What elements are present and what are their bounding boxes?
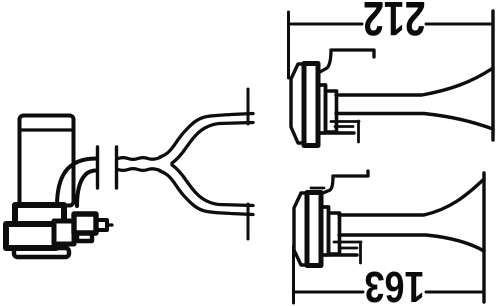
svg-text:212: 212 — [363, 0, 425, 44]
svg-text:163: 163 — [364, 262, 424, 306]
